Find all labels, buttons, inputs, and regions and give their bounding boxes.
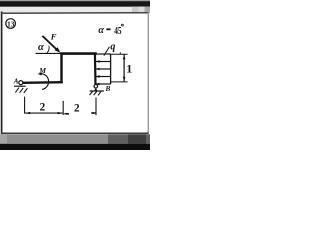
svg-text:F: F <box>50 31 57 41</box>
beam frame <box>23 53 97 85</box>
distributed load q <box>96 41 116 85</box>
dimension 2 left <box>25 97 64 115</box>
figure number 13 <box>6 19 16 29</box>
scan edge band bottom <box>0 134 150 143</box>
angle annotation alpha = 45 deg <box>98 24 123 37</box>
svg-text:B: B <box>105 85 111 93</box>
svg-text:α: α <box>38 42 44 53</box>
svg-text:A: A <box>13 77 19 85</box>
svg-text:45: 45 <box>114 26 121 37</box>
svg-text:2: 2 <box>40 101 46 113</box>
svg-text:α: α <box>98 25 104 36</box>
figure frame <box>1 12 3 135</box>
svg-text:1: 1 <box>126 62 132 76</box>
dimension 2 right <box>64 98 96 116</box>
moment M <box>38 66 49 89</box>
support A <box>13 77 28 93</box>
dimension 1 right <box>111 52 132 82</box>
force F <box>36 31 61 53</box>
svg-text:2: 2 <box>74 102 80 114</box>
svg-text:13: 13 <box>7 19 14 28</box>
svg-text:q: q <box>110 41 115 52</box>
scan edge band top <box>0 0 150 1</box>
support B <box>90 85 111 96</box>
